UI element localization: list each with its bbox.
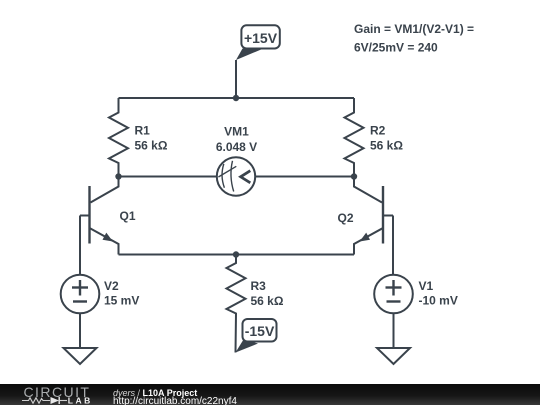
wire V2 to ground <box>79 313 81 348</box>
wire top rail <box>119 97 355 99</box>
footer text <box>113 388 237 405</box>
footer bar <box>0 384 540 405</box>
node below R2 <box>351 173 357 179</box>
resistor R2 <box>345 98 364 177</box>
svg-text:V2: V2 <box>104 279 119 293</box>
voltmeter VM1 <box>217 157 255 195</box>
ground below V2 <box>64 348 97 364</box>
transistor Q1 <box>80 177 119 255</box>
svg-text:VM1: VM1 <box>224 125 249 139</box>
svg-text:R1: R1 <box>135 124 151 138</box>
source V1 <box>374 275 413 314</box>
node below R1 <box>115 173 121 179</box>
wire V1 to ground <box>393 313 395 348</box>
logo circuitlab wordmark <box>22 384 93 405</box>
wire +15V drop <box>235 60 237 98</box>
svg-text:56 kΩ: 56 kΩ <box>135 139 168 153</box>
net -15V flag box <box>243 319 277 342</box>
resistor R3 <box>227 255 246 353</box>
wire Q1 base to V2 <box>79 216 81 275</box>
ground below V1 <box>377 348 410 364</box>
svg-text:http://circuitlab.com/c22nyf4: http://circuitlab.com/c22nyf4 <box>113 396 237 405</box>
svg-text:-15V: -15V <box>245 323 275 339</box>
logo diode <box>51 397 60 404</box>
svg-text:Q1: Q1 <box>120 209 136 223</box>
svg-text:V1: V1 <box>419 279 434 293</box>
svg-text:R3: R3 <box>251 279 267 293</box>
svg-text:LAB: LAB <box>68 396 93 405</box>
svg-text:15 mV: 15 mV <box>104 294 139 308</box>
source V2 <box>61 275 100 314</box>
svg-text:6.048 V: 6.048 V <box>216 140 257 154</box>
net +15V flag box <box>241 25 279 48</box>
node bottom rail junction <box>233 251 239 257</box>
wire voltmeter right <box>255 176 354 178</box>
svg-text:Gain = VM1/(V2-V1) =: Gain = VM1/(V2-V1) = <box>354 22 474 36</box>
svg-text:6V/25mV = 240: 6V/25mV = 240 <box>354 41 438 55</box>
logo resistor squiggle <box>22 398 50 403</box>
svg-text:56 kΩ: 56 kΩ <box>370 139 403 153</box>
wire bottom rail <box>119 254 355 256</box>
resistor R1 <box>109 98 128 177</box>
wire Q2 base to V1 <box>392 216 394 275</box>
svg-text:+15V: +15V <box>244 30 278 46</box>
node top rail junction <box>233 95 239 101</box>
net -15V flag tail <box>236 340 259 353</box>
svg-text:R2: R2 <box>370 124 386 138</box>
svg-text:Q2: Q2 <box>337 211 353 225</box>
net +15V flag tail <box>236 49 264 61</box>
svg-text:-10 mV: -10 mV <box>419 294 458 308</box>
svg-text:56 kΩ: 56 kΩ <box>251 294 284 308</box>
wire voltmeter left <box>119 176 218 178</box>
transistor Q2 <box>354 177 393 255</box>
